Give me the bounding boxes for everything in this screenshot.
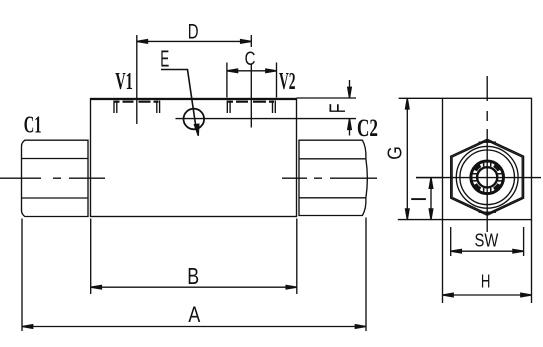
inner ring thick xyxy=(477,167,497,187)
svg-text:B: B xyxy=(187,263,199,289)
hex right facet line 2 xyxy=(299,197,366,199)
port V2 wall left xyxy=(227,101,230,114)
C extension right xyxy=(276,63,278,98)
dimension SW xyxy=(450,227,452,256)
hex left facet line 1 xyxy=(22,158,89,160)
hex nut left xyxy=(22,140,89,216)
port V1 wall left xyxy=(114,101,117,114)
axis centerline right xyxy=(282,177,377,179)
svg-text:F: F xyxy=(325,104,350,114)
centerline horizontal end view xyxy=(416,177,541,179)
dimension G xyxy=(399,97,443,99)
svg-text:C2: C2 xyxy=(357,115,378,142)
svg-text:C: C xyxy=(245,49,256,70)
leader E xyxy=(161,70,196,126)
dimension D line xyxy=(137,40,252,42)
svg-text:G: G xyxy=(383,146,406,160)
svg-text:A: A xyxy=(188,302,200,327)
dimension C line xyxy=(227,70,277,72)
dimension F xyxy=(349,80,351,98)
circle E xyxy=(184,109,205,130)
hex nut right xyxy=(299,140,367,215)
circle mid xyxy=(456,146,518,208)
dimension A xyxy=(21,219,23,332)
cardinal bars xyxy=(471,161,504,194)
port V1 wall right xyxy=(157,101,160,114)
body top edge thick xyxy=(91,98,297,100)
hexagon chamfer chord top xyxy=(479,141,497,143)
port V1 hidden dashes xyxy=(114,101,161,103)
svg-text:E: E xyxy=(160,46,169,72)
valve body (side view) xyxy=(91,99,297,217)
dimension I xyxy=(416,177,443,179)
hex right facet line 1 xyxy=(299,158,366,160)
port V2 hidden dashes xyxy=(227,101,276,103)
svg-text:H: H xyxy=(481,272,491,292)
svg-text:V1: V1 xyxy=(115,69,133,95)
svg-text:V2: V2 xyxy=(279,69,296,95)
hexagon xyxy=(451,139,524,215)
svg-text:D: D xyxy=(188,19,199,43)
dimension B xyxy=(90,219,92,295)
centerline vertical end view xyxy=(486,76,488,232)
square body end view xyxy=(443,98,532,219)
port axis line through E xyxy=(176,118,357,120)
C extension left xyxy=(226,63,228,98)
svg-text:C1: C1 xyxy=(24,112,42,138)
hex left facet line 2 xyxy=(22,197,89,199)
diagonal wedges xyxy=(475,165,500,190)
outer ring thick xyxy=(471,161,504,194)
circle inner thin xyxy=(460,150,515,205)
port V2 centerline xyxy=(250,35,252,47)
chamfer inset hexagon xyxy=(452,141,522,214)
label I rotated xyxy=(411,198,426,200)
dimension H xyxy=(442,220,444,303)
top edge extension to F xyxy=(297,97,357,99)
hexagon chamfer chord bottom xyxy=(479,211,497,213)
port V1 centerline xyxy=(136,35,138,124)
svg-text:SW: SW xyxy=(475,231,499,251)
axis centerline left xyxy=(0,177,105,179)
port V2 wall right xyxy=(273,101,276,114)
